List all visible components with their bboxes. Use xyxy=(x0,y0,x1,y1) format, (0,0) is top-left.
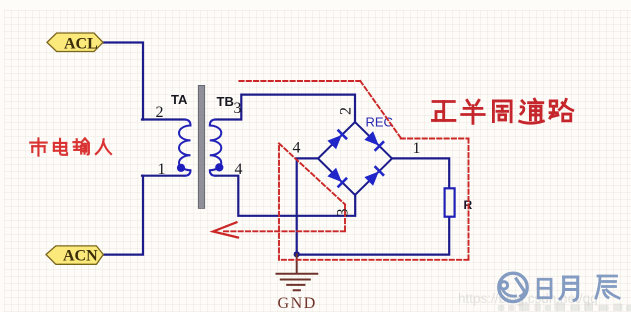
wire TB pin 3 to bridge pin 2 xyxy=(216,95,356,123)
wire bridge pin 4 to ground node xyxy=(297,158,319,254)
wire dashed short vertical xyxy=(344,204,346,231)
watermark grey bottom strip xyxy=(498,303,631,312)
wire dashed arrow line xyxy=(222,230,345,232)
wire dashed upper-right horizontal xyxy=(401,138,469,140)
wire dashed right vertical xyxy=(468,139,470,260)
wire ACL to transformer pin 2 xyxy=(103,43,143,120)
transformer primary winding TA xyxy=(179,120,191,176)
svg-text:2: 2 xyxy=(156,104,164,121)
transformer core xyxy=(198,85,204,208)
text red char dian xyxy=(54,139,67,155)
svg-text:TB: TB xyxy=(217,94,234,109)
junction node dot xyxy=(294,251,300,257)
wire dashed mid vertical xyxy=(278,143,280,259)
ground stub xyxy=(296,254,298,273)
wire resistor R to ground node xyxy=(297,217,450,255)
wire dashed diagonal top-right xyxy=(360,81,400,138)
text red char zheng xyxy=(432,102,454,121)
text red char zhou xyxy=(493,101,511,122)
port ACL xyxy=(47,33,103,53)
diode D-topright xyxy=(365,132,378,145)
wire transformer pin 2 stub xyxy=(142,118,185,120)
watermark logo circle xyxy=(499,273,527,301)
svg-text:3: 3 xyxy=(234,100,242,117)
svg-text:4: 4 xyxy=(235,161,243,178)
ground bars xyxy=(277,274,318,291)
text watermark char yue xyxy=(560,277,578,300)
red dashed highlight path (positive half cycle) xyxy=(222,81,469,260)
resistor R body xyxy=(445,188,455,216)
svg-text:REC: REC xyxy=(366,115,393,130)
svg-text:1: 1 xyxy=(158,161,166,178)
text red char shi xyxy=(30,138,46,155)
diode D-bottomright xyxy=(365,172,378,185)
wire dashed top segment xyxy=(239,80,360,82)
text red char tong xyxy=(520,99,544,123)
svg-text:ACL: ACL xyxy=(64,36,98,53)
diode D-topleft xyxy=(328,136,341,149)
arrowhead of dashed path xyxy=(213,222,238,237)
svg-text:GND: GND xyxy=(278,295,317,312)
diode D-bottomleft xyxy=(328,169,341,182)
bridge rectifier REC diamond xyxy=(318,122,392,195)
wire TB pin 4 to bridge pin 3 xyxy=(216,176,356,216)
text red char ban xyxy=(462,100,484,123)
svg-text:ACN: ACN xyxy=(63,248,98,265)
svg-text:2: 2 xyxy=(338,107,355,115)
text red char ru xyxy=(96,139,111,154)
transformer secondary polarity dot xyxy=(215,163,223,171)
port ACN xyxy=(46,246,103,265)
wire dashed bottom horizontal xyxy=(279,259,469,261)
svg-text:4: 4 xyxy=(293,140,301,157)
text red char shu xyxy=(73,138,88,154)
text watermark char chen xyxy=(596,276,619,298)
svg-text:3: 3 xyxy=(335,209,352,217)
text watermark char ri xyxy=(538,279,551,298)
wire transformer pin 1 stub xyxy=(142,175,185,177)
wire ACN to transformer pin 1 xyxy=(103,176,143,255)
wire dashed diagonal through bridge xyxy=(279,143,345,204)
svg-text:TA: TA xyxy=(171,92,188,107)
text red char lu xyxy=(550,99,573,120)
wire bridge pin 1 to resistor R xyxy=(392,158,450,188)
transformer secondary winding TB xyxy=(210,120,222,176)
svg-text:1: 1 xyxy=(413,140,421,157)
transformer primary polarity dot xyxy=(177,164,185,172)
